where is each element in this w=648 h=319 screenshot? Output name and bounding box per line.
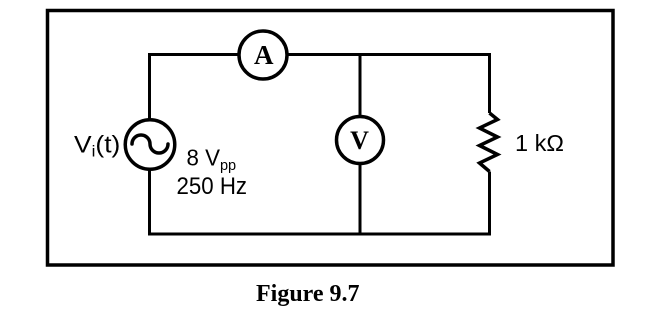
wire bottom node [148, 233, 491, 236]
wire middle branch to voltmeter [359, 53, 362, 234]
value label 8 Vpp [187, 144, 237, 174]
voltmeter U-V [337, 117, 384, 164]
wire left branch [148, 53, 151, 234]
ammeter U-A [239, 31, 287, 79]
value label 250 Hz [177, 172, 248, 199]
wire right branch to resistor [488, 53, 491, 235]
resistor R1 zigzag [480, 113, 498, 172]
label Vi(t) [74, 132, 120, 161]
svg-text:V: V [350, 126, 369, 155]
svg-text:Figure 9.7: Figure 9.7 [256, 281, 360, 307]
svg-text:250 Hz: 250 Hz [177, 172, 248, 199]
svg-text:A: A [254, 40, 274, 70]
svg-text:1 kΩ: 1 kΩ [515, 130, 564, 156]
voltage source V1 Vi(t) [125, 120, 175, 170]
wire top node [149, 53, 490, 56]
svg-text:8 Vpp: 8 Vpp [187, 144, 237, 174]
svg-text:Vi(t): Vi(t) [74, 132, 120, 161]
